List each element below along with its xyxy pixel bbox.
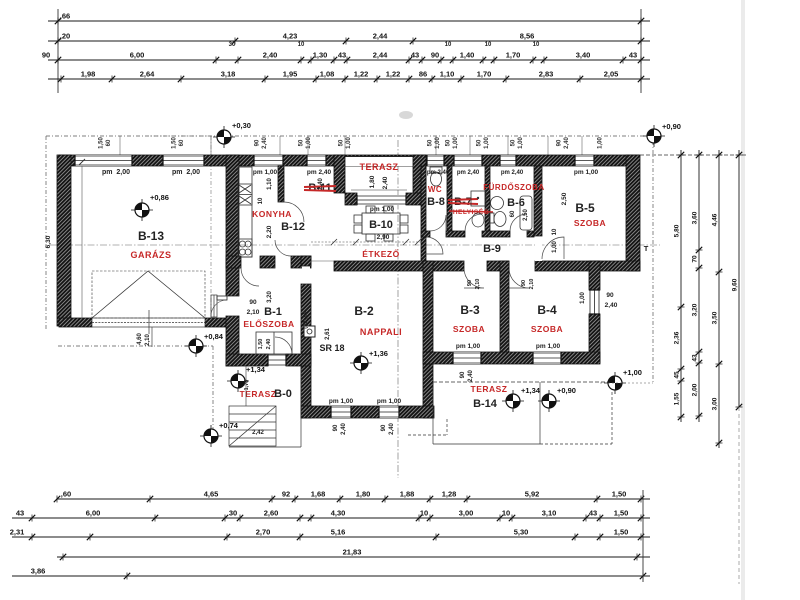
- svg-text:pm 1,00: pm 1,00: [536, 343, 561, 350]
- terrace B14 outline: [408, 382, 612, 444]
- svg-text:60: 60: [510, 210, 516, 217]
- svg-text:2,10: 2,10: [145, 334, 151, 346]
- bottom block right boundary: [642, 490, 644, 582]
- terrace bottom wall piece: [345, 193, 357, 205]
- elevation marker +0,30: [213, 121, 251, 148]
- svg-text:TERASZ: TERASZ: [360, 162, 399, 172]
- garage eaves vertical: [210, 136, 212, 318]
- wc door arc: [430, 215, 446, 231]
- svg-text:3,20: 3,20: [267, 291, 273, 303]
- kitchen bottom wall seg2: [260, 256, 275, 268]
- svg-text:1,50: 1,50: [258, 339, 264, 350]
- red strike over HELYISEG: [449, 211, 493, 212]
- svg-text:ÉTKEZŐ: ÉTKEZŐ: [362, 248, 399, 259]
- svg-text:92: 92: [282, 490, 290, 499]
- svg-text:1,28: 1,28: [442, 490, 457, 499]
- window dim labels: [557, 137, 571, 149]
- right exterior wall: [626, 155, 640, 271]
- svg-text:6,30: 6,30: [45, 235, 52, 248]
- B-1 bottom wall seg2: [286, 354, 311, 366]
- section line vertical: [397, 140, 399, 478]
- svg-text:90: 90: [521, 280, 527, 286]
- B-2 bottom wall: [301, 406, 434, 418]
- house left wall lower: [226, 316, 239, 366]
- elevation marker +0,74: [200, 421, 239, 447]
- B-1 terrace door: [268, 354, 286, 366]
- svg-text:5,30: 5,30: [514, 528, 529, 537]
- dotted line to marker 1,00: [600, 382, 653, 384]
- B-2/B-3 wall: [423, 261, 433, 418]
- bath sink: [491, 197, 504, 210]
- svg-text:ELŐSZOBA: ELŐSZOBA: [243, 318, 294, 329]
- red strike over B-7: [448, 199, 478, 204]
- bottom dim row 5: [12, 567, 650, 580]
- bottom dim row 2: [12, 509, 650, 522]
- svg-text:1,88: 1,88: [400, 490, 415, 499]
- terrace left wall stub: [334, 155, 345, 193]
- svg-text:10: 10: [298, 42, 305, 48]
- svg-text:90: 90: [249, 299, 257, 306]
- window dim labels: [428, 137, 442, 149]
- svg-text:10: 10: [445, 42, 452, 48]
- right dim col 1: [674, 150, 685, 422]
- svg-text:2,44: 2,44: [373, 51, 388, 60]
- kitchen bottom wall seg1: [226, 256, 241, 268]
- right dim col 3: [712, 150, 723, 448]
- window dim labels: [172, 137, 186, 149]
- bathroom window: [500, 155, 516, 166]
- elevation marker +1,00: [604, 368, 642, 394]
- svg-text:3,50: 3,50: [712, 311, 719, 324]
- svg-text:1,50: 1,50: [172, 137, 178, 149]
- bathroom bottom wall seg1: [421, 231, 430, 237]
- svg-text:1,00: 1,00: [580, 292, 586, 304]
- red strike over B-11: [304, 186, 336, 191]
- svg-text:2,40: 2,40: [266, 339, 272, 350]
- elevation marker B14 +1,34: [502, 386, 541, 412]
- svg-text:pm 2,40: pm 2,40: [307, 169, 332, 176]
- door konyha arc: [275, 240, 291, 256]
- right dim col 2: [692, 150, 703, 422]
- svg-text:30: 30: [229, 42, 236, 48]
- svg-text:2,42: 2,42: [252, 430, 264, 436]
- svg-text:2,40: 2,40: [263, 51, 278, 60]
- svg-text:2,10: 2,10: [475, 279, 481, 290]
- garage interior dim line: [81, 166, 83, 318]
- svg-text:B-13: B-13: [138, 229, 164, 243]
- extension line: [547, 136, 549, 155]
- window dim labels: [339, 137, 353, 149]
- elevation marker +0,84: [185, 332, 224, 357]
- svg-text:2,10: 2,10: [529, 279, 535, 290]
- svg-text:1,70: 1,70: [506, 51, 521, 60]
- svg-text:B-1: B-1: [264, 306, 282, 318]
- svg-text:B-7: B-7: [454, 196, 472, 208]
- door B-1 arc: [241, 268, 259, 286]
- svg-text:90: 90: [381, 424, 387, 431]
- right col4 faint extension: [738, 407, 740, 584]
- svg-text:2,36: 2,36: [674, 331, 681, 344]
- bath toilet: [489, 212, 506, 227]
- svg-text:10: 10: [420, 509, 428, 518]
- kitchen bottom wall seg3: [291, 256, 311, 268]
- svg-text:3,10: 3,10: [542, 509, 557, 518]
- elevation marker B0 +1,34: [227, 365, 266, 392]
- line right of 210 labels: [151, 327, 153, 347]
- svg-text:1,00: 1,00: [453, 137, 459, 149]
- svg-text:pm 1,00: pm 1,00: [370, 206, 395, 213]
- pantry window B-11: [307, 155, 326, 166]
- svg-text:2,70: 2,70: [256, 528, 271, 537]
- svg-text:1,68: 1,68: [311, 490, 326, 499]
- svg-text:2,40: 2,40: [341, 423, 347, 435]
- svg-text:45: 45: [674, 371, 681, 379]
- dimension block left boundary line: [57, 9, 59, 93]
- bathroom bottom wall seg3: [482, 231, 510, 237]
- svg-text:2,40: 2,40: [262, 137, 268, 149]
- svg-text:+0,90: +0,90: [557, 386, 576, 395]
- B-4 right wall lower: [589, 314, 600, 363]
- svg-text:50: 50: [339, 139, 345, 146]
- b7 fixture: [471, 191, 486, 206]
- svg-text:4,60: 4,60: [137, 333, 143, 345]
- terrace B0 steps: [229, 406, 276, 446]
- entry steps: [211, 295, 217, 317]
- window dim labels: [255, 137, 269, 149]
- elevation marker +0,90 top right: [643, 122, 681, 147]
- svg-text:4,46: 4,46: [712, 213, 719, 226]
- svg-text:B-0: B-0: [274, 388, 292, 400]
- svg-text:SZOBA: SZOBA: [574, 218, 606, 228]
- svg-text:2,50: 2,50: [523, 209, 529, 221]
- svg-text:10: 10: [258, 197, 264, 204]
- B-1 bottom wall seg1: [226, 354, 268, 366]
- svg-text:pm 2,00: pm 2,00: [172, 169, 200, 176]
- rooms B-3/B-4 bottom wall: [423, 352, 600, 364]
- house left wall upper: [226, 155, 239, 296]
- svg-text:2,05: 2,05: [604, 70, 619, 79]
- entry door opening: [227, 296, 238, 316]
- svg-text:+0,84: +0,84: [204, 332, 224, 341]
- svg-text:4,30: 4,30: [331, 509, 346, 518]
- B-2 left wall: [301, 284, 311, 418]
- svg-text:NAPPALI: NAPPALI: [360, 327, 402, 337]
- svg-text:60: 60: [106, 139, 112, 146]
- svg-text:2,40: 2,40: [318, 178, 324, 190]
- svg-text:pm 1,00: pm 1,00: [574, 169, 599, 176]
- svg-text:1,30: 1,30: [313, 51, 328, 60]
- svg-text:pm 1,00: pm 1,00: [253, 169, 278, 176]
- svg-text:90: 90: [333, 424, 339, 431]
- B-4 door swing: [509, 268, 529, 288]
- svg-text:3,00: 3,00: [459, 509, 474, 518]
- svg-text:B-5: B-5: [575, 201, 595, 215]
- svg-text:90: 90: [431, 51, 439, 60]
- section line horizontal: [50, 244, 660, 246]
- extension line: [210, 136, 212, 155]
- svg-text:70: 70: [692, 255, 699, 263]
- svg-text:5,16: 5,16: [331, 528, 346, 537]
- extension line: [307, 136, 309, 155]
- svg-text:10: 10: [502, 509, 510, 518]
- svg-text:B-4: B-4: [537, 303, 557, 317]
- svg-text:1,00: 1,00: [435, 137, 441, 149]
- garage left wall: [57, 155, 71, 326]
- B-5 door opening: [535, 236, 542, 261]
- svg-text:B-12: B-12: [281, 221, 305, 233]
- svg-text:1,80: 1,80: [356, 490, 371, 499]
- svg-text:2,64: 2,64: [140, 70, 155, 79]
- window dim labels: [299, 137, 313, 149]
- bath tub: [520, 196, 532, 230]
- elevation marker B-2 +1,36: [350, 349, 388, 374]
- B-2 window 1: [331, 406, 351, 418]
- B-3 door swing: [464, 268, 484, 288]
- svg-text:2,40: 2,40: [564, 137, 570, 149]
- scan smudge: [399, 111, 413, 119]
- garage bottom wall right: [205, 318, 226, 327]
- svg-text:B-10: B-10: [369, 219, 393, 231]
- garage door sill band: [92, 318, 205, 327]
- svg-text:2,50: 2,50: [561, 192, 568, 205]
- window dim labels: [598, 137, 604, 149]
- window dim labels: [446, 137, 460, 149]
- extension line: [507, 136, 509, 155]
- svg-text:1,40: 1,40: [460, 51, 475, 60]
- svg-text:21,83: 21,83: [343, 548, 362, 557]
- B-2 left wall upper: [301, 256, 311, 266]
- kitchen counter: [238, 167, 252, 257]
- svg-text:60: 60: [179, 139, 185, 146]
- window dim labels: [99, 137, 113, 149]
- svg-text:5,80: 5,80: [674, 224, 681, 237]
- svg-text:2,61: 2,61: [325, 328, 331, 340]
- svg-text:3,40: 3,40: [576, 51, 591, 60]
- svg-text:1,98: 1,98: [81, 70, 96, 79]
- svg-text:1,50: 1,50: [614, 509, 629, 518]
- svg-text:90: 90: [460, 371, 466, 378]
- elevation marker B14 +0,90: [538, 386, 576, 412]
- wall B-6/B-5: [534, 166, 542, 236]
- svg-text:,20: ,20: [60, 32, 70, 41]
- terrace floor lines: [351, 189, 407, 191]
- svg-text:90: 90: [255, 139, 261, 146]
- svg-text:4,65: 4,65: [204, 490, 219, 499]
- top dim row 2: [48, 32, 650, 45]
- svg-text:30: 30: [229, 509, 237, 518]
- right dim col 4: [732, 150, 743, 410]
- B-3 window: [453, 352, 481, 364]
- svg-text:,66: ,66: [60, 12, 70, 21]
- dimension block right boundary line: [640, 9, 642, 93]
- B-1/B-2 door: [302, 266, 310, 284]
- svg-text:pm 2,40: pm 2,40: [501, 170, 524, 176]
- svg-text:3,20: 3,20: [692, 303, 699, 316]
- svg-text:2,40: 2,40: [605, 302, 618, 309]
- svg-text:1,00: 1,00: [306, 137, 312, 149]
- svg-text:2,83: 2,83: [539, 70, 554, 79]
- window dim labels: [477, 137, 491, 149]
- svg-text:50: 50: [477, 139, 483, 146]
- extension line: [469, 136, 471, 155]
- corridor bottom wall seg1: [334, 261, 464, 271]
- svg-text:6,00: 6,00: [86, 509, 101, 518]
- svg-text:(39!,69: (39!,69: [303, 311, 309, 328]
- svg-text:+0,30: +0,30: [232, 121, 251, 130]
- svg-text:GARÁZS: GARÁZS: [131, 250, 172, 260]
- svg-text:pm 1,00: pm 1,00: [329, 398, 354, 405]
- svg-text:1,22: 1,22: [354, 70, 369, 79]
- B-2 window 2: [379, 406, 399, 418]
- terrace B0 left edge: [245, 366, 247, 406]
- b1 closet: [256, 332, 292, 354]
- terrace top opening: [345, 156, 413, 166]
- svg-text:43: 43: [16, 509, 24, 518]
- svg-text:9,60: 9,60: [732, 278, 739, 291]
- kitchen-pantry wall: [278, 166, 284, 202]
- b7 door arc: [465, 214, 482, 231]
- top dim row 3: [42, 51, 650, 64]
- svg-text:FÜRDŐSZOBA: FÜRDŐSZOBA: [483, 183, 544, 192]
- svg-text:1,00: 1,00: [598, 137, 604, 149]
- bottom dim row 1: [54, 490, 650, 503]
- svg-text:SZOBA: SZOBA: [453, 324, 485, 334]
- B-3/B-4 wall: [500, 261, 509, 363]
- marker 030 left line: [150, 135, 213, 137]
- svg-text:50: 50: [299, 139, 305, 146]
- svg-text:3,60: 3,60: [692, 211, 699, 224]
- svg-text:1,22: 1,22: [386, 70, 401, 79]
- room B-7 window: [454, 155, 482, 166]
- svg-text:KONYHA: KONYHA: [252, 209, 292, 219]
- dining table with chairs: [354, 206, 408, 241]
- svg-text:1,00: 1,00: [552, 241, 558, 253]
- svg-text:SR 18: SR 18: [319, 343, 344, 353]
- extension line: [344, 136, 346, 155]
- right dim top connector: [640, 154, 748, 156]
- extension line: [279, 136, 281, 155]
- svg-text:TERASZ: TERASZ: [471, 384, 508, 394]
- svg-text:5,92: 5,92: [525, 490, 540, 499]
- svg-text:43: 43: [589, 509, 597, 518]
- kitchen window: [254, 155, 283, 166]
- svg-text:6,00: 6,00: [130, 51, 145, 60]
- svg-text:+1,36: +1,36: [369, 349, 388, 358]
- svg-text:pm 1,00: pm 1,00: [456, 343, 481, 350]
- svg-text:+1,34: +1,34: [246, 365, 266, 374]
- svg-text:1,55: 1,55: [674, 392, 681, 405]
- svg-text:90: 90: [467, 280, 473, 286]
- closet door arc: [275, 337, 292, 354]
- top dim row 4: [48, 70, 650, 83]
- svg-text:B-6: B-6: [507, 197, 525, 209]
- svg-text:2,44: 2,44: [373, 32, 388, 41]
- svg-text:3,86: 3,86: [31, 567, 46, 576]
- svg-text:1,95: 1,95: [283, 70, 298, 79]
- svg-text:pm 1,00: pm 1,00: [377, 398, 402, 405]
- svg-text:10: 10: [485, 42, 492, 48]
- svg-text:8,56: 8,56: [520, 32, 535, 41]
- wc window: [427, 155, 444, 166]
- wall B-7/B-6: [485, 166, 490, 231]
- svg-text:B-3: B-3: [460, 303, 480, 317]
- svg-text:3,18: 3,18: [221, 70, 236, 79]
- svg-text:WC: WC: [428, 185, 442, 194]
- svg-text:1,50: 1,50: [612, 490, 627, 499]
- svg-text:86: 86: [419, 70, 427, 79]
- svg-text:1,08: 1,08: [320, 70, 335, 79]
- exterior top wall: [59, 155, 639, 166]
- svg-text:1,50: 1,50: [614, 528, 629, 537]
- svg-text:90: 90: [42, 51, 50, 60]
- svg-text:2,10: 2,10: [247, 309, 260, 316]
- corridor door arc: [426, 237, 443, 254]
- svg-text:+1,00: +1,00: [623, 368, 642, 377]
- svg-text:1,10: 1,10: [267, 178, 273, 190]
- elevation marker garage +0,86: [131, 193, 169, 221]
- svg-text:pm 2,40: pm 2,40: [457, 170, 480, 176]
- svg-text:90: 90: [606, 292, 614, 299]
- wc left wall: [421, 166, 426, 261]
- garage bottom wall left: [59, 318, 92, 327]
- etkezo bottom line: [311, 260, 334, 262]
- room B-5 bottom wall: [535, 261, 640, 271]
- terrace right corner block: [406, 193, 426, 205]
- svg-text:43: 43: [411, 51, 419, 60]
- svg-text:1,00: 1,00: [518, 137, 524, 149]
- svg-text:2,40: 2,40: [382, 176, 389, 189]
- bottom dim row 3: [10, 528, 650, 541]
- scan artifact faint line: [741, 0, 745, 600]
- wc right wall: [447, 166, 452, 231]
- svg-text:1,78: 1,78: [244, 380, 250, 391]
- svg-text:+1,34: +1,34: [521, 386, 541, 395]
- top dim row 3 small labels: [229, 42, 540, 48]
- corridor bottom wall seg2: [487, 261, 509, 271]
- extension line: [435, 136, 437, 155]
- svg-text:T: T: [644, 244, 649, 253]
- garage door: [92, 271, 205, 334]
- extension line: [581, 136, 583, 155]
- svg-text:2,31: 2,31: [10, 528, 25, 537]
- svg-text:B-14: B-14: [473, 398, 498, 410]
- bathroom bottom wall seg2: [446, 231, 465, 237]
- top dim row 1 overall: [48, 12, 650, 25]
- svg-text:pm 2,00: pm 2,00: [102, 169, 130, 176]
- etkezo top line: [311, 239, 421, 245]
- svg-text:4,23: 4,23: [283, 32, 298, 41]
- svg-text:pm 2,40: pm 2,40: [427, 170, 450, 176]
- svg-text:B-9: B-9: [483, 243, 501, 255]
- svg-text:90: 90: [557, 139, 563, 146]
- terrace door band: [357, 195, 406, 205]
- svg-text:2,60: 2,60: [264, 509, 279, 518]
- garage window 1: [75, 155, 132, 166]
- eaves dashed outline: [46, 136, 653, 441]
- svg-text:SZOBA: SZOBA: [531, 324, 563, 334]
- B-4 terrace door: [589, 290, 600, 314]
- entry door leaf and swing: [217, 296, 227, 300]
- b0 right line: [300, 366, 302, 447]
- svg-text:1,00: 1,00: [346, 137, 352, 149]
- garage window 2: [163, 155, 204, 166]
- svg-text:10: 10: [552, 228, 558, 235]
- svg-text:1,80: 1,80: [369, 175, 376, 188]
- svg-text:50: 50: [511, 139, 517, 146]
- svg-text:1,70: 1,70: [477, 70, 492, 79]
- wc toilet: [430, 167, 442, 186]
- terrace right wall stub: [413, 155, 426, 193]
